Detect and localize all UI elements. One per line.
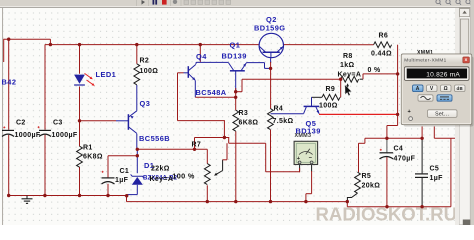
svg-text:R4: R4	[274, 106, 284, 113]
svg-text:20kΩ: 20kΩ	[362, 183, 381, 190]
svg-text:0 %: 0 %	[368, 67, 382, 74]
svg-text:C1: C1	[120, 168, 130, 175]
svg-text:+: +	[408, 109, 412, 115]
svg-text:R6: R6	[379, 33, 389, 40]
svg-text:R9: R9	[326, 86, 336, 93]
svg-text:R8: R8	[343, 53, 353, 60]
svg-text:Q3: Q3	[140, 99, 151, 108]
svg-text:100Ω: 100Ω	[319, 103, 338, 110]
svg-text:Q1: Q1	[230, 41, 241, 50]
svg-text:XMM3: XMM3	[295, 133, 312, 139]
svg-text:B42: B42	[2, 78, 17, 87]
svg-text:Q4: Q4	[196, 52, 207, 61]
svg-text:Q2: Q2	[266, 15, 277, 24]
svg-text:BD159G: BD159G	[254, 24, 285, 33]
svg-text:6K8Ω: 6K8Ω	[83, 154, 103, 161]
svg-text:Set...: Set...	[435, 111, 449, 117]
svg-text:1000µF: 1000µF	[52, 132, 78, 139]
svg-text:R7: R7	[192, 142, 202, 149]
svg-text:R2: R2	[140, 58, 150, 65]
svg-text:C5: C5	[430, 166, 440, 173]
svg-text:100 %: 100 %	[172, 172, 195, 181]
svg-text:R5: R5	[362, 173, 372, 180]
svg-text:C3: C3	[53, 120, 63, 127]
svg-text:1kΩ: 1kΩ	[340, 62, 354, 69]
svg-text:22kΩ: 22kΩ	[151, 165, 170, 172]
svg-text:R3: R3	[239, 110, 249, 117]
svg-text:BC556B: BC556B	[139, 134, 170, 143]
svg-text:BC548A: BC548A	[196, 88, 227, 97]
svg-text:C2: C2	[16, 120, 26, 127]
svg-text:×: ×	[464, 57, 467, 63]
svg-text:Ω: Ω	[444, 86, 448, 92]
svg-text:BD139: BD139	[222, 51, 247, 60]
svg-text:7.5kΩ: 7.5kΩ	[273, 118, 294, 125]
svg-text:−: −	[309, 156, 313, 162]
svg-text:Key=A: Key=A	[150, 176, 174, 183]
svg-text:Multimeter-XMM1: Multimeter-XMM1	[404, 57, 446, 62]
svg-text:1µF: 1µF	[115, 177, 129, 184]
svg-text:470µF: 470µF	[394, 156, 416, 163]
svg-text:C4: C4	[394, 146, 404, 153]
svg-text:0.44Ω: 0.44Ω	[371, 51, 392, 58]
svg-text:R1: R1	[83, 145, 93, 152]
svg-text:dB: dB	[456, 86, 463, 91]
svg-text:1µF: 1µF	[430, 175, 444, 182]
svg-text:100Ω: 100Ω	[140, 68, 159, 75]
svg-text:LED1: LED1	[96, 70, 117, 79]
svg-text:V: V	[430, 86, 434, 92]
svg-text:6K8Ω: 6K8Ω	[239, 120, 259, 127]
svg-text:Key=A: Key=A	[338, 72, 362, 79]
svg-text:A: A	[416, 86, 420, 92]
svg-text:10.826 mA: 10.826 mA	[426, 71, 460, 78]
svg-text:1000µF: 1000µF	[15, 132, 41, 139]
